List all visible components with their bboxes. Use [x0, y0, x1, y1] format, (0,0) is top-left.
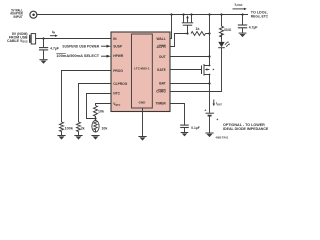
svg-text:10k: 10k	[101, 127, 107, 131]
svg-text:100mA/500mA SELECT: 100mA/500mA SELECT	[56, 54, 100, 58]
node: VBUS capacitor junction	[42, 37, 44, 39]
current arrow IBAT	[213, 100, 223, 107]
svg-text:4085 TA01: 4085 TA01	[216, 135, 229, 139]
battery BT1 single cell Li-Ion	[204, 109, 214, 133]
resistor R3 10k NTC bias	[94, 106, 98, 120]
svg-text:NTC: NTC	[113, 92, 120, 96]
label: optional note	[217, 117, 270, 131]
ground: under C2	[181, 133, 189, 137]
svg-text:CHRG: CHRG	[156, 89, 166, 93]
ground: main GND	[138, 137, 146, 141]
svg-text:GATE: GATE	[157, 68, 167, 72]
svg-text:100k: 100k	[65, 127, 73, 131]
pin labels right side	[156, 37, 167, 106]
wire: PROG pin to resistor	[62, 71, 112, 123]
wire: 5V wall adapter top rail	[37, 14, 248, 16]
svg-text:IIN: IIN	[52, 30, 56, 35]
label: 100mA/500mA SELECT input arrow	[56, 53, 111, 58]
wire: OUT vertical from rail to ideal diode FET	[209, 15, 211, 66]
connector J1 wall adapter jack	[30, 11, 37, 18]
label: 5V WALL ADAPTER INPUT	[10, 8, 23, 19]
label: SUSPEND USB POWER input arrow	[62, 45, 110, 49]
svg-text:IDEAL DIODE IMPEDANCE: IDEAL DIODE IMPEDANCE	[223, 127, 269, 131]
resistor R1 100k PROG	[60, 122, 64, 135]
wire: USB VBUS to IN pin	[36, 38, 111, 40]
svg-text:4.7µF: 4.7µF	[249, 25, 258, 29]
ground: under RT1	[91, 136, 99, 140]
node: WALL rail junction	[170, 13, 172, 15]
wire: WALL pin to top rail	[170, 15, 172, 39]
svg-text:GND: GND	[138, 101, 146, 105]
svg-text:510Ω: 510Ω	[224, 28, 231, 32]
wire: OUT pin to vertical	[170, 56, 210, 58]
svg-text:TIMER: TIMER	[156, 101, 167, 105]
wire: CHRG pin to LED chain	[170, 48, 222, 92]
svg-text:PROG: PROG	[113, 69, 123, 73]
ground: under R1	[57, 136, 65, 140]
wire: GND pin to ground	[142, 108, 144, 136]
op-amp U1 LTC4085-1 IC body	[111, 32, 170, 112]
wire: TIMER pin to cap	[170, 104, 185, 125]
overline ACPR	[158, 44, 166, 46]
svg-text:*: *	[213, 68, 215, 73]
ground: under R2	[74, 136, 82, 140]
overline CHRG	[158, 88, 166, 90]
resistor R5 510 ohm	[220, 26, 224, 37]
pin labels left side	[113, 37, 128, 107]
svg-text:2k: 2k	[81, 127, 85, 131]
svg-text:10k: 10k	[98, 109, 104, 113]
svg-text:IBAT: IBAT	[216, 102, 222, 107]
thermistor RT1 10k NTC	[92, 119, 108, 133]
ground: under C1	[39, 60, 47, 64]
wire: GATE pin to Q2 gate	[170, 69, 202, 71]
svg-text:OUT: OUT	[159, 55, 166, 59]
LED D1 charge indicator	[218, 34, 230, 48]
ground: under C3	[239, 33, 247, 37]
svg-text:OPTIONAL - TO LOWER: OPTIONAL - TO LOWER	[223, 123, 265, 127]
node: NTC divider junction	[94, 117, 96, 119]
capacitor C3 4.7uF output	[238, 15, 258, 33]
resistor R4 1k gate pull-up	[191, 32, 205, 36]
node: 1k to OUT vertical	[208, 32, 210, 34]
current arrow ILOAD	[233, 2, 247, 10]
svg-text:*: *	[217, 117, 219, 122]
capacitor C2 0.1uF timer	[180, 125, 200, 132]
svg-text:ILOAD: ILOAD	[235, 2, 243, 7]
svg-text:4.7µF: 4.7µF	[50, 46, 59, 50]
svg-text:SUSPEND USB POWER: SUSPEND USB POWER	[62, 45, 99, 49]
wire: CLPROG pin to resistor	[79, 84, 112, 123]
wire: Q2 to BAT junction and battery	[209, 75, 211, 113]
capacitor C1 4.7uF input	[39, 39, 60, 60]
wire: NTC pin to divider node	[87, 94, 112, 119]
svg-text:REGs, ETC: REGs, ETC	[251, 15, 269, 19]
node: output cap rail junction	[241, 13, 243, 15]
svg-text:1k: 1k	[196, 27, 200, 31]
U1 inner die box	[132, 34, 153, 108]
svg-text:BAT: BAT	[159, 82, 166, 86]
transistor Q1 wall PFET on rail	[182, 13, 193, 33]
svg-text:SUSP: SUSP	[113, 45, 123, 49]
svg-text:+: +	[204, 109, 206, 113]
node: Q1 gate junction	[186, 32, 188, 34]
svg-text:LTC4085-1: LTC4085-1	[134, 66, 150, 70]
connector J2 USB VBUS plug	[30, 34, 36, 44]
svg-text:0.1µF: 0.1µF	[191, 126, 200, 130]
resistor R2 2k CLPROG	[77, 122, 81, 135]
svg-text:ACPR: ACPR	[156, 45, 166, 49]
ground: under battery	[205, 133, 213, 137]
wire: VNTC pin to resistor	[96, 104, 112, 106]
svg-text:CLPROG: CLPROG	[113, 82, 128, 86]
current arrow IIN	[50, 30, 58, 37]
svg-text:CABLE VBUS: CABLE VBUS	[7, 39, 28, 44]
wire: BAT pin	[170, 83, 210, 85]
wire: ACPR pin to gate node	[170, 34, 188, 47]
label: 5V (NOM) FROM USB CABLE VBUS	[7, 32, 28, 44]
transistor Q2 optional ideal diode PFET	[202, 64, 215, 76]
svg-text:HPWR: HPWR	[113, 54, 124, 58]
svg-text:INPUT: INPUT	[14, 15, 24, 19]
svg-text:WALL: WALL	[156, 37, 165, 41]
label: TO LDOs REGs ETC	[251, 11, 269, 19]
